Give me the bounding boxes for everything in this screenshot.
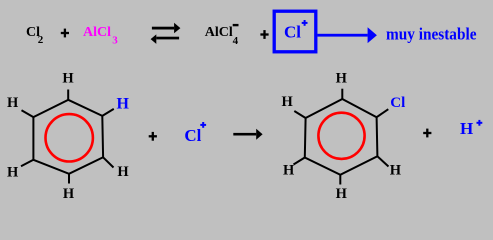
plus sign (chlorobenzene + H+) xyxy=(423,132,431,134)
AlCl4- anion label xyxy=(205,24,239,47)
C-H bond top (left ring) xyxy=(67,90,69,100)
svg-text:Cl: Cl xyxy=(184,126,201,145)
aromatic circle (left) xyxy=(45,114,92,161)
AlCl3 catalyst label xyxy=(83,25,118,46)
C-H bond bottom (right ring) xyxy=(339,175,341,185)
plus sign (Cl2 + AlCl3) xyxy=(61,32,69,34)
reaction arrow xyxy=(233,129,262,140)
svg-text:H: H xyxy=(336,186,348,202)
svg-text:H: H xyxy=(390,163,402,179)
plus sign (AlCl4 + Cl+) xyxy=(260,33,268,35)
svg-text:H: H xyxy=(460,119,473,138)
svg-text:Cl: Cl xyxy=(284,23,301,42)
Cl+ cation label in box xyxy=(284,20,308,42)
C-H bond lower-left (right ring) xyxy=(294,158,305,165)
Cl2 reactant label xyxy=(26,25,44,46)
C-H bond top (right ring) xyxy=(341,89,343,99)
svg-text:H: H xyxy=(117,164,129,180)
C-H bond lower-left (left ring) xyxy=(21,160,33,167)
svg-text:H: H xyxy=(7,95,19,111)
C-H bond upper-left (left ring) xyxy=(22,110,34,117)
C-H bond bottom (left ring) xyxy=(68,174,70,184)
svg-text:3: 3 xyxy=(112,34,118,46)
svg-text:4: 4 xyxy=(233,35,239,47)
C-H bond lower-right (left ring) xyxy=(103,157,113,167)
benzene ring (left) xyxy=(33,100,103,174)
Cl+ box xyxy=(274,11,316,52)
C-H bond upper-right (left ring) xyxy=(102,109,114,116)
svg-text:AlCl: AlCl xyxy=(83,25,111,40)
svg-text:H: H xyxy=(282,94,294,110)
svg-text:Cl: Cl xyxy=(390,95,405,111)
svg-text:2: 2 xyxy=(38,34,44,46)
blue arrow to muy inestable xyxy=(318,27,377,43)
svg-text:H: H xyxy=(116,96,129,113)
svg-text:AlCl: AlCl xyxy=(205,25,233,40)
svg-text:muy inestable: muy inestable xyxy=(386,24,477,43)
H+ label xyxy=(460,119,482,138)
plus sign (benzene + Cl+) xyxy=(149,135,157,137)
C-H bond upper-left (right ring) xyxy=(294,111,305,118)
C-Cl bond upper-right (right ring) xyxy=(377,109,389,117)
svg-text:H: H xyxy=(62,71,74,87)
benzene ring (right) xyxy=(305,99,378,175)
svg-text:H: H xyxy=(63,186,75,202)
equilibrium arrows xyxy=(151,23,181,44)
svg-text:H: H xyxy=(283,163,295,179)
C-H bond lower-right (right ring) xyxy=(377,156,388,166)
Cl+ cation label (free) xyxy=(184,122,206,145)
svg-text:H: H xyxy=(7,165,19,181)
aromatic circle (right) xyxy=(318,113,364,159)
svg-text:H: H xyxy=(336,71,348,87)
